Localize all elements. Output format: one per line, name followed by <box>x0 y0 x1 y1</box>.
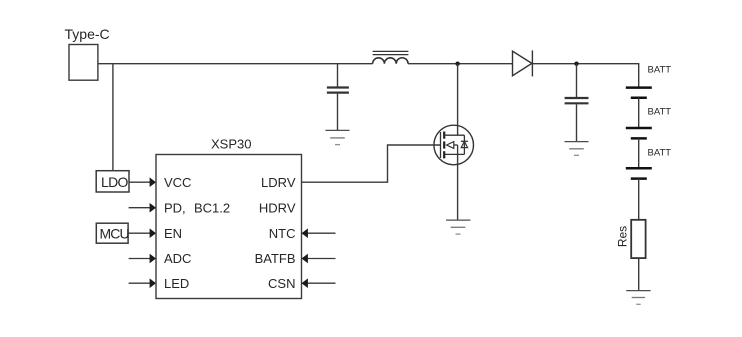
transistor Q1 gate plate <box>440 132 442 158</box>
svg-text:PD: PD <box>164 200 182 215</box>
svg-text:LDRV: LDRV <box>261 175 296 190</box>
wire battery to resistor <box>638 179 640 220</box>
wire main rail segment 2 (inductor to diode) <box>408 63 512 65</box>
diode D1 cathode bar <box>531 50 533 76</box>
ground for resistor <box>626 291 650 305</box>
inductor L1 core lines <box>373 51 409 54</box>
svg-text:Res: Res <box>616 226 630 247</box>
diode D1 triangle <box>513 51 532 76</box>
capacitor C2 plates <box>565 98 589 103</box>
svg-text:BATT: BATT <box>648 147 672 158</box>
battery cell 3 positive plate <box>626 167 652 170</box>
svg-text:ADC: ADC <box>164 251 191 266</box>
svg-text:LDO: LDO <box>101 174 128 190</box>
battery cell 2 negative plate <box>631 137 647 140</box>
MCU box <box>96 223 128 243</box>
wire MOSFET drain <box>457 64 459 136</box>
transistor Q1 MOSFET circle <box>434 125 474 165</box>
svg-text:,: , <box>182 200 186 215</box>
wire main rail segment 1 (Type-C to inductor) <box>98 63 373 65</box>
battery cell 2 positive plate <box>626 127 652 130</box>
svg-text:BATFB: BATFB <box>255 251 296 266</box>
op IC U1 XSP30 box <box>156 155 302 299</box>
wire LDO to VCC pin with arrow <box>129 177 156 187</box>
connector J1 Type-C box <box>69 45 98 81</box>
transistor Q1 source internal connection <box>444 153 464 155</box>
wire resistor to ground <box>638 258 640 291</box>
wire cell2 to cell3 <box>638 138 640 168</box>
junction node at MOSFET drain <box>455 62 459 66</box>
wire arrow into CSN pin <box>302 278 336 288</box>
svg-text:BATT: BATT <box>648 107 672 118</box>
battery cell 1 negative plate <box>631 97 647 100</box>
wire arrow into LED pin <box>129 278 156 288</box>
battery cell 3 negative plate <box>631 177 647 180</box>
wire arrow into ADC pin <box>129 254 156 264</box>
svg-text:XSP30: XSP30 <box>211 136 251 151</box>
ground for Q1 source <box>446 220 470 234</box>
junction node at output capacitor <box>574 62 578 66</box>
svg-text:MCU: MCU <box>100 226 130 242</box>
wire MCU to EN pin with arrow <box>128 228 156 238</box>
svg-text:BATT: BATT <box>648 65 672 76</box>
transistor Q1 body arrow <box>447 142 458 155</box>
svg-text:EN: EN <box>164 226 182 241</box>
wire main rail segment 3 (diode to battery) <box>532 64 638 88</box>
transistor Q1 body diode <box>461 135 468 154</box>
wire arrow into BATFB pin <box>302 254 336 264</box>
capacitor C1 plates <box>327 88 349 93</box>
wire MOSFET source to ground <box>457 154 459 220</box>
transistor Q1 channel segments <box>443 132 445 159</box>
capacitor C2 output lead <box>576 64 578 97</box>
svg-text:NTC: NTC <box>269 226 296 241</box>
svg-text:VCC: VCC <box>164 175 191 190</box>
wire arrow into NTC pin <box>302 228 336 238</box>
svg-text:BC1.2: BC1.2 <box>194 200 230 215</box>
battery cell 1 positive plate <box>626 86 652 89</box>
inductor L1 windings <box>373 58 409 64</box>
ground for C2 <box>565 142 589 156</box>
svg-text:HDRV: HDRV <box>259 200 296 215</box>
wire C1 to ground <box>337 94 339 131</box>
wire LDRV to MOSFET gate <box>302 145 441 182</box>
svg-text:LED: LED <box>164 276 189 291</box>
svg-text:Type-C: Type-C <box>65 26 110 42</box>
transistor Q1 drain internal connection <box>444 134 464 136</box>
resistor Res body <box>631 220 645 258</box>
wire cell1 to cell2 <box>638 98 640 128</box>
wire C2 to ground <box>576 104 578 141</box>
LDO box <box>96 171 129 192</box>
wire drop to LDO <box>112 64 114 171</box>
wire arrow into PD/BC1.2 pin <box>129 203 156 213</box>
capacitor C1 input lead <box>337 64 339 87</box>
ground for C1 <box>326 130 350 144</box>
svg-text:CSN: CSN <box>268 276 295 291</box>
